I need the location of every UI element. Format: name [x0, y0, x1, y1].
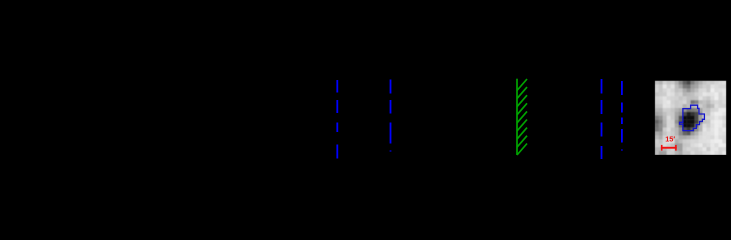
scale bar (red)	[661, 145, 677, 151]
absorption-line marker L1 (blue dashed vertical at x=337)	[336, 80, 338, 159]
svg-text:15′: 15′	[665, 134, 675, 143]
sky-line comb (green hatched vertical at x=517)	[517, 79, 527, 155]
absorption-line marker L4 (blue dashed vertical at x=621.5)	[621, 81, 623, 151]
absorption-line marker L2 (blue dashed vertical at x=390.5)	[390, 80, 392, 153]
absorption-line marker L3 (blue dashed vertical at x=601.5)	[601, 79, 603, 159]
source contour (blue)	[680, 105, 705, 130]
